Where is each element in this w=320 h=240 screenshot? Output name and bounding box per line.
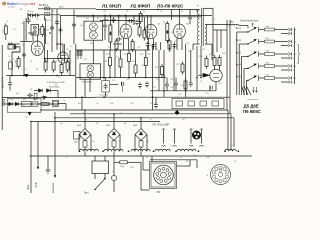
- svg-text:С17: С17: [202, 49, 205, 51]
- wire fuse leads: [114, 162, 141, 190]
- capacitor C14 electrolytic: [122, 82, 124, 92]
- resistor R3 C1-13M: [16, 56, 21, 69]
- connector sub box 3: [200, 101, 207, 106]
- socket bracket inner: [151, 163, 175, 187]
- label antenna rotated: [51, 182, 55, 193]
- label Gn1: [293, 30, 297, 36]
- svg-text:Д4: Д4: [124, 123, 126, 125]
- wire v G3: [173, 44, 175, 91]
- svg-text:Пч: Пч: [33, 100, 35, 102]
- wire bridge1 bottom: [84, 147, 86, 151]
- wire bridge1 side leads: [79, 135, 91, 152]
- winding W1: [80, 149, 99, 151]
- svg-text:Л6: Л6: [70, 46, 72, 48]
- capacitor C23: [138, 83, 142, 89]
- label B3-B7,4: [39, 4, 49, 7]
- terminal Gn4b: [288, 69, 291, 72]
- wire bundle v1: [238, 44, 240, 95]
- label D3L: [133, 125, 138, 127]
- svg-text:С16: С16: [186, 43, 189, 45]
- svg-text:Д2Л: Д2Л: [106, 125, 111, 127]
- label Gn3: [293, 54, 297, 60]
- svg-text:Тр: Тр: [85, 119, 87, 121]
- label top tiny3: [60, 7, 65, 9]
- transformer TR1 primary winding: [197, 10, 199, 44]
- wire h y84 mid: [110, 84, 118, 86]
- svg-text:С11: С11: [103, 11, 106, 13]
- svg-text:Д3Л: Д3Л: [133, 125, 138, 127]
- wire v x129: [128, 50, 130, 78]
- svg-text:0: 0: [66, 157, 67, 159]
- capacitor C8: [103, 23, 107, 29]
- wire v x197b: [196, 10, 198, 13]
- wire v x28: [28, 15, 46, 44]
- wire h bus y75.5: [6, 75, 75, 77]
- svg-text:Л7: Л7: [200, 81, 202, 83]
- wire h y77.5: [76, 77, 166, 79]
- wire v x5 stub: [5, 37, 7, 41]
- wire chain y104: [5, 103, 58, 105]
- svg-text:б: б: [293, 46, 294, 48]
- svg-text:С14: С14: [116, 57, 119, 59]
- socket bracket: [150, 162, 177, 189]
- svg-text:Д2: Д2: [120, 113, 122, 115]
- tiny value labels texture 2: [6, 5, 236, 173]
- wire v G0: [152, 44, 154, 97]
- svg-text:R29: R29: [199, 56, 202, 58]
- svg-text:Сг3: Сг3: [146, 141, 149, 143]
- svg-text:R1: R1: [30, 61, 32, 63]
- svg-text:Вч2: Вч2: [78, 103, 81, 105]
- ground symbol: [46, 156, 51, 173]
- resistor R15: [166, 30, 169, 43]
- transformer TR1 secondary winding: [205, 25, 207, 45]
- svg-text:Гр: Гр: [63, 100, 65, 102]
- fuse Pr2: [120, 161, 128, 168]
- wire row4: [259, 66, 288, 70]
- label C3-1M: [99, 94, 108, 96]
- label L4 small: [176, 6, 179, 8]
- terminal Gn1a: [288, 28, 292, 31]
- svg-text:Д5 Д6Е: Д5 Д6Е: [244, 104, 259, 109]
- connector sub box 1: [176, 101, 183, 106]
- svg-text:Д1: Д1: [30, 89, 32, 91]
- wire eye bottom: [210, 82, 216, 91]
- winding W6: [225, 149, 236, 151]
- brace Gn8: [297, 44, 300, 64]
- svg-text:R23: R23: [147, 54, 150, 56]
- capacitor C24: [165, 82, 169, 88]
- svg-text:R34: R34: [150, 103, 153, 105]
- wire v x134: [133, 15, 135, 25]
- svg-text:Сл2: Сл2: [206, 157, 210, 159]
- wire v x85 mid: [84, 79, 86, 97]
- wire v x145: [145, 50, 147, 78]
- svg-text:С4: С4: [21, 23, 23, 25]
- label Zvuk rotated: [26, 184, 30, 190]
- svg-text:Ст: Ст: [180, 157, 182, 159]
- resistor R23: [213, 55, 216, 68]
- capacitor C5: [27, 18, 31, 24]
- svg-text:Л1: Л1: [126, 11, 128, 13]
- wire mid verticals: [156, 42, 161, 50]
- wire bus corners down: [228, 110, 234, 151]
- wire h y41.5: [20, 41, 32, 43]
- connector pin 4: [200, 129, 204, 147]
- svg-text:С20: С20: [152, 87, 155, 89]
- wire bridge3 bottom: [140, 147, 142, 151]
- antenna jack Gn-B: [8, 43, 20, 49]
- wire top bus y9.5: [96, 9, 199, 11]
- svg-text:R15: R15: [68, 61, 71, 63]
- junction dots left: [11, 13, 62, 76]
- resistor R27: [3, 24, 13, 70]
- wire v G2: [163, 50, 165, 97]
- switch Vkl2: [236, 39, 259, 45]
- svg-text:4М: 4М: [44, 35, 47, 37]
- capacitor C28: [72, 22, 76, 28]
- switch Vkl3: [236, 51, 259, 57]
- wire v x206 x214 x219: [207, 56, 220, 71]
- svg-text:Л4: Л4: [174, 41, 176, 43]
- capacitor C4: [34, 14, 40, 18]
- fuse box under bridge2: [112, 141, 116, 147]
- bridge rectifier D1: [79, 129, 91, 141]
- resistor R19: [144, 55, 147, 68]
- svg-text:R19: R19: [124, 54, 127, 56]
- tube L3 power: [174, 24, 186, 38]
- terminal Gn4a: [288, 64, 292, 67]
- wire h y33: [28, 32, 33, 34]
- tube L2 pentode: [145, 24, 157, 38]
- wire v x74: [73, 10, 75, 45]
- resistor R25: [184, 79, 187, 92]
- svg-text:ПЛ1 ЛП1а 6Ц4П: ПЛ1 ЛП1а 6Ц4П: [152, 125, 170, 127]
- wire h y58.5: [44, 58, 70, 60]
- wire tr1 sec bottom: [205, 44, 212, 60]
- capacitor C16: [189, 81, 193, 87]
- svg-text:С9: С9: [58, 77, 60, 79]
- capacitor C1 trimmer: [45, 7, 50, 10]
- terminal Gn3b: [288, 57, 291, 60]
- capacitor C11: [152, 43, 156, 49]
- wire tube5 leads: [37, 35, 39, 41]
- wire bridge1 top: [84, 110, 86, 129]
- resistor P1: [265, 26, 275, 31]
- connector pin 2: [173, 129, 177, 147]
- neon lamp: [111, 156, 116, 192]
- bridge rectifier D3: [135, 129, 147, 141]
- tube socket S2: [211, 165, 231, 185]
- resistor R18: [134, 63, 137, 76]
- svg-text:С9: С9: [104, 30, 106, 32]
- svg-text:б: б: [293, 82, 294, 84]
- resistor P4: [265, 63, 275, 68]
- wire v x90 mid: [89, 79, 91, 92]
- wire bridge2 top: [113, 114, 115, 129]
- bridge rectifier D2: [108, 129, 120, 141]
- svg-text:Пр3: Пр3: [130, 167, 133, 169]
- wire row5: [259, 78, 288, 82]
- svg-text:R21: R21: [140, 54, 143, 56]
- svg-text:Д2: Д2: [96, 123, 98, 125]
- svg-text:Гн: Гн: [8, 56, 10, 58]
- wire v x104: [103, 50, 105, 79]
- terminal Gn5b: [288, 81, 291, 84]
- indicator lamp face: [192, 131, 200, 139]
- label top tiny2: [20, 9, 23, 11]
- svg-text:С21: С21: [170, 87, 173, 89]
- wire tube2 cathode: [149, 38, 154, 50]
- box TsM: [32, 102, 38, 106]
- wire chain right: [58, 96, 82, 110]
- note box 2x10: [47, 82, 65, 88]
- junction dots bus: [103, 75, 165, 79]
- switch Vkl4: [236, 63, 259, 69]
- wire bus y121.5: [31, 121, 160, 123]
- label V7: [43, 100, 46, 102]
- terminal C: [2, 98, 5, 106]
- switch Vkl5: [236, 75, 259, 81]
- resistor P2: [265, 38, 275, 43]
- resistor R9: [109, 23, 112, 36]
- wire bridge2 bottom: [113, 147, 115, 151]
- svg-text:-12В СГ-4: -12В СГ-4: [2, 77, 5, 89]
- svg-text:Тр2: Тр2: [80, 25, 83, 27]
- svg-text:С12: С12: [137, 47, 140, 49]
- svg-text:Св 4Л1: Св 4Л1: [44, 20, 51, 22]
- wire top y14: [28, 14, 60, 16]
- svg-text:Л3-Л6 6Р2С: Л3-Л6 6Р2С: [157, 3, 184, 8]
- wire tr1 sec top to choke: [205, 24, 227, 26]
- wire v x102 bottom: [105, 78, 107, 97]
- wire row3: [259, 54, 288, 58]
- choke Dr: [231, 22, 235, 24]
- wire v x176 low: [175, 78, 177, 91]
- wire tube1 top: [125, 15, 127, 24]
- resistor R26 horizontal: [39, 103, 51, 106]
- junction dots bus-diamond: [30, 109, 142, 122]
- label Sl1: [193, 155, 198, 157]
- diode D6 on unit box: [28, 112, 32, 115]
- box Pr1 left: [74, 132, 81, 144]
- resistor R28: [119, 57, 122, 70]
- wire top bus y15.4: [60, 14, 212, 16]
- label L1-C6: [27, 11, 34, 13]
- resistor P3: [265, 51, 275, 56]
- wire bundle join switches: [237, 32, 248, 81]
- svg-text:R2: R2: [112, 22, 114, 24]
- wire v x169: [169, 44, 171, 50]
- label vynosnye: [248, 99, 259, 101]
- arrow dashed up: [252, 23, 254, 27]
- resistor R29 between tubes: [138, 25, 146, 41]
- diode D3: [44, 96, 47, 99]
- junction dots B: [93, 9, 181, 16]
- wire bus y117.8: [55, 117, 234, 119]
- resistor R11: [139, 11, 142, 24]
- capacitor C26 black diamond: [175, 110, 179, 115]
- title tube lineup label: [102, 3, 184, 8]
- winding W3: [131, 149, 150, 151]
- resistor R1: [39, 24, 44, 37]
- svg-text:+1,2В: +1,2В: [8, 99, 14, 101]
- svg-text:С15: С15: [168, 51, 171, 53]
- wire v x40: [37, 122, 39, 170]
- svg-text:б: б: [293, 58, 294, 60]
- svg-text:Л1-Св: Л1-Св: [27, 11, 34, 13]
- svg-text:R16: R16: [104, 61, 107, 63]
- svg-text:R32: R32: [110, 103, 113, 105]
- connector sub box 4: [212, 101, 219, 106]
- wire v x24: [23, 21, 25, 76]
- label D2L: [106, 125, 111, 127]
- label top tiny1: [8, 6, 15, 9]
- svg-text:Тр3: Тр3: [230, 145, 233, 147]
- wire v x190c: [189, 10, 191, 25]
- winding junction dots: [79, 150, 239, 152]
- tiny value labels texture: [8, 7, 212, 159]
- tube L7 magic eye 6E5S: [210, 69, 222, 81]
- wire diode row: [34, 91, 58, 98]
- label L2 small: [158, 24, 161, 26]
- resistor P5: [265, 75, 275, 80]
- wire v x12: [11, 52, 13, 76]
- svg-text:R11: R11: [54, 61, 57, 63]
- label line remote: [240, 21, 259, 23]
- watermark RadioStorage.net logo icon: [2, 2, 6, 6]
- winding W2: [104, 149, 123, 151]
- capacitor C3: [29, 14, 35, 18]
- wire bridge3 side leads: [135, 135, 147, 152]
- diode D4: [9, 102, 13, 106]
- wire tube3 cathode: [177, 38, 182, 50]
- terminal Gn3a: [288, 52, 292, 55]
- wire v x221 tr: [220, 30, 222, 48]
- svg-text:С22: С22: [178, 94, 181, 96]
- fuse box under bridge3: [139, 141, 143, 147]
- wire v x47: [47, 50, 49, 62]
- capacitor C7: [27, 93, 33, 97]
- label L3 small: [186, 24, 189, 26]
- label Gn4: [293, 66, 297, 72]
- svg-text:С23: С23: [205, 93, 208, 95]
- resistor R24: [218, 55, 221, 68]
- wire h y30 tr: [213, 29, 227, 31]
- svg-text:Сл1-Ат: Сл1-Ат: [8, 6, 15, 9]
- label -12V SG rotated: [2, 77, 5, 89]
- capacitor C18: [22, 20, 59, 59]
- resistor R8: [34, 93, 37, 99]
- box BTs-M: [22, 101, 32, 106]
- wire h y44 left: [8, 43, 20, 45]
- svg-text:Звук: Звук: [26, 184, 30, 190]
- wire v x64: [64, 44, 66, 62]
- capacitor C9: [116, 37, 122, 41]
- connector sub box 2: [188, 101, 195, 106]
- svg-text:Л6: Л6: [234, 161, 236, 163]
- wire h y156: [30, 155, 253, 157]
- svg-text:Сб: Сб: [96, 103, 98, 105]
- wire winding taps: [85, 151, 141, 156]
- resistor R14: [166, 21, 169, 34]
- svg-text:Л5: Л5: [22, 45, 24, 47]
- terminal Gn1b: [288, 32, 291, 35]
- wire h y20 B: [103, 19, 108, 21]
- wire v x75.8: [75, 44, 77, 98]
- svg-text:С1-4М: С1-4М: [39, 28, 41, 34]
- wire tube1 cathode: [124, 38, 129, 50]
- diode D5: [15, 102, 19, 106]
- winding W4: [155, 149, 170, 151]
- resistor R21: [181, 62, 184, 75]
- svg-text:Л2 6Ф6П: Л2 6Ф6П: [131, 3, 151, 8]
- wire h y44 B: [113, 43, 122, 45]
- junction dots mid: [103, 77, 202, 98]
- svg-text:Сг2: Сг2: [118, 141, 121, 143]
- svg-text:С20: С20: [180, 85, 183, 87]
- svg-text:R6: R6: [163, 22, 165, 24]
- resistor R7: [66, 60, 69, 73]
- label +12V rotated: [34, 182, 38, 188]
- wire v x105: [104, 15, 106, 40]
- svg-text:R5: R5: [108, 47, 110, 49]
- connector pin 3: [189, 129, 193, 147]
- wire matrix feeders: [227, 20, 230, 114]
- transformer TR1 core: [201, 8, 203, 46]
- wire v x10: [9, 76, 11, 91]
- tube socket S1: [154, 165, 174, 185]
- svg-text:Тр1: Тр1: [196, 5, 199, 7]
- wire row1: [259, 30, 288, 34]
- capacitor C22: [188, 15, 192, 21]
- resistor R22: [205, 56, 208, 69]
- wire antenna drop: [12, 47, 20, 52]
- svg-text:С17: С17: [112, 80, 115, 82]
- svg-text:б: б: [293, 70, 294, 72]
- wire diag fan: [242, 86, 251, 95]
- capacitor C21: [128, 19, 134, 23]
- svg-text:Антенна: Антенна: [51, 182, 55, 193]
- svg-text:Др2: Др2: [16, 93, 19, 95]
- wire x141 to socket: [141, 189, 150, 191]
- tube L5 triode: [31, 41, 43, 56]
- label L1 small: [133, 24, 136, 26]
- svg-text:С19: С19: [156, 79, 159, 81]
- wire winding to bracket: [151, 156, 153, 162]
- svg-text:СЮ: СЮ: [120, 32, 123, 34]
- winding W5: [177, 149, 196, 151]
- wire v x55 arrow: [54, 118, 56, 178]
- capacitor C10: [135, 20, 150, 48]
- svg-text:R4: R4: [131, 40, 133, 42]
- svg-text:.net: .net: [29, 2, 36, 6]
- svg-text:-12В: -12В: [34, 182, 38, 188]
- label L6 6E5S: [243, 109, 262, 114]
- svg-text:R24: R24: [155, 49, 158, 51]
- svg-text:R20: R20: [142, 65, 145, 67]
- resistor R16: [109, 55, 112, 68]
- svg-text:Линия Выносного: Линия Выносного: [240, 21, 259, 23]
- capacitor C6: [8, 81, 12, 87]
- wire v x115: [114, 50, 116, 78]
- wire v G4: [185, 44, 187, 97]
- resistor R2: [25, 18, 27, 41]
- wire h y97.5: [2, 97, 95, 99]
- label Gn5: [293, 78, 297, 84]
- capacitor C25: [174, 81, 178, 87]
- label D1L: [77, 125, 82, 127]
